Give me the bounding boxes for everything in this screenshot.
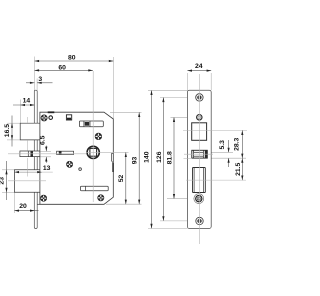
dim 28.3 (241, 130, 243, 158)
lock case outline (40, 112, 113, 204)
dim 6.5 (45, 146, 47, 163)
slider 2 (left of follower) (57, 151, 74, 154)
bottom screw hole (196, 217, 203, 224)
extension small hole center (81.8) (171, 116, 198, 118)
svg-text:21.5: 21.5 (235, 162, 242, 175)
extension line case right (for 80) (112, 57, 114, 119)
dim 93 (138, 112, 140, 204)
svg-text:52: 52 (118, 175, 125, 183)
faceplate centerline vertical (198, 74, 200, 244)
pin b (79, 168, 82, 171)
extension latch cutout bottom left (184, 157, 192, 159)
extension case top right (for 93) (110, 111, 142, 113)
extension latch bottom right (5.3/28.3/21.5) (211, 157, 246, 159)
centerline deadbolt vertical (26, 158, 28, 177)
svg-text:93: 93 (132, 157, 139, 165)
extension faceplate top left (140) (148, 89, 188, 91)
case bottom edge continues to forend (37, 203, 40, 205)
centerline deadbolt horizontal (8, 180, 46, 182)
extension deadbolt bottom left (for 23) (2, 191, 14, 193)
extension line latch face (for 14) (19, 100, 21, 124)
extension line forend outer face (for 80/60/3) (34, 57, 36, 91)
top screw hole (196, 94, 203, 101)
dim 52 (125, 152, 127, 204)
dim 16.5 (11, 116, 13, 147)
centerline deadbolt cutout horizontal (21.5) (186, 179, 246, 181)
latch cutout (192, 150, 208, 158)
right edge dark segment (112, 163, 114, 172)
screw C (66, 161, 73, 168)
top slider dark cell (85, 122, 90, 126)
extension snib top right (for 6.5) (36, 150, 51, 152)
extension latch box bottom left (for 16.5) (7, 139, 20, 141)
screw B (95, 133, 102, 140)
svg-text:6.5: 6.5 (39, 135, 46, 145)
dim 80 (35, 60, 114, 62)
dark tab on case top edge (48, 111, 55, 113)
dim 20 (14, 210, 38, 212)
svg-text:60: 60 (58, 64, 66, 71)
snib pin bevel line 1 (27, 151, 29, 157)
small hole (197, 115, 202, 120)
extension line forend inner face (for 3) (36, 79, 38, 91)
svg-text:126: 126 (156, 151, 163, 163)
svg-text:14: 14 (23, 98, 31, 105)
snib pin dark segment (31, 151, 33, 156)
dim 81.8 (173, 117, 175, 198)
dim 126 (162, 98, 164, 221)
extension bottom screw center (126) (160, 220, 205, 222)
extension faceplate bottom left (140) (148, 228, 188, 230)
extension 24 right (210, 73, 212, 90)
forend plate (34, 90, 37, 228)
right edge jog (112, 154, 114, 164)
dim 13 (14, 171, 52, 173)
pin a (49, 116, 53, 120)
svg-text:140: 140 (143, 151, 150, 163)
centerline square cutout horizontal (28.3) (183, 129, 247, 131)
svg-text:28.3: 28.3 (234, 137, 241, 150)
extension snib bottom right (for 6.5) (36, 156, 51, 158)
snib pin (20, 151, 40, 157)
svg-text:20: 20 (19, 203, 27, 210)
centerline vertical through follower (92, 71, 94, 202)
extension latch inner top right (5.3) (211, 151, 233, 153)
small square part below top edge (66, 115, 71, 120)
extension top screw center (126) (160, 96, 205, 98)
latch bolt box (20, 123, 40, 140)
dim 140 (150, 90, 152, 228)
svg-text:3: 3 (38, 76, 42, 83)
top slider (79, 121, 103, 127)
dim 60 (35, 69, 93, 71)
svg-text:13: 13 (43, 165, 51, 172)
svg-text:24: 24 (195, 63, 203, 70)
centerline horizontal through follower/latch (8, 153, 86, 155)
extension deadbolt top left (for 23) (2, 169, 14, 171)
dim 23 (5, 161, 7, 200)
deadbolt cutout (193, 168, 206, 193)
extension case bottom right (for 52/93) (106, 203, 142, 205)
follower (spindle hub) (87, 146, 99, 158)
svg-text:5.3: 5.3 (219, 140, 226, 150)
bottom slider (81, 186, 109, 191)
dim 21.5 (241, 158, 243, 180)
extension cylinder center (81.8) (167, 198, 194, 200)
svg-text:81.8: 81.8 (166, 151, 173, 164)
svg-text:23: 23 (0, 177, 5, 185)
svg-text:80: 80 (68, 55, 76, 62)
screw A (41, 115, 48, 122)
dim 5.3 (228, 140, 230, 167)
extension latch box top left (for 16.5) (7, 122, 20, 124)
dim 3 (26, 82, 53, 84)
centerline latch box vertical (26, 117, 28, 123)
dim 14 (13, 104, 35, 106)
extension 24 left (187, 73, 189, 90)
square cutout (follower) (192, 123, 207, 141)
snib pin bevel line 2 (30, 151, 32, 157)
dim 24 (187, 70, 211, 72)
faceplate outline (187, 90, 211, 228)
screw E (98, 195, 105, 202)
deadbolt (14, 170, 40, 193)
extension deadbolt tip (for 20) (13, 192, 15, 213)
svg-text:16.5: 16.5 (4, 124, 11, 137)
cylinder hole (194, 194, 204, 204)
centerline latch cutout horizontal (184, 153, 213, 155)
screw D (40, 195, 47, 202)
